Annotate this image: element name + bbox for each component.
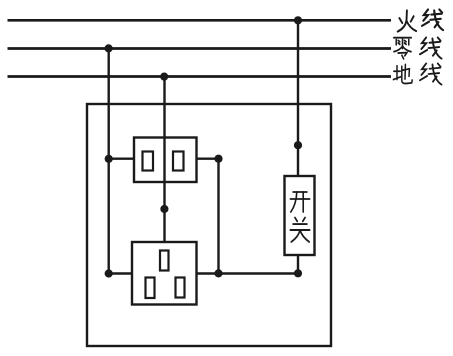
junction dot: switch bottom [294, 269, 302, 277]
wire: earth line (horizontal bottom) [8, 75, 392, 78]
socket XS2 bottom-right slot [176, 278, 185, 298]
socket XS1 left slot [143, 152, 154, 171]
switch S1 label 关 [290, 218, 309, 242]
switch S1 body [285, 176, 315, 255]
switch S1 label 开 [290, 192, 309, 212]
label 火线 (live wire) [398, 9, 443, 31]
junction dot: XS1 right lead [214, 155, 222, 163]
wire: live line (horizontal top) [8, 19, 392, 22]
junction dot: neutral riser at XS1 left [105, 155, 113, 163]
wire: earth drop (vertical center) [163, 77, 165, 243]
junction dot: earth drop mid [160, 205, 168, 213]
label 地线 (earth wire) [393, 63, 441, 84]
junction dot: neutral riser at XS2 left [105, 269, 113, 277]
junction dot: live drop mid [294, 141, 302, 149]
socket XS2 (three-hole) body [132, 242, 197, 305]
enclosure box [87, 104, 331, 346]
wire: three-hole socket left lead [109, 272, 132, 274]
socket XS1 (two-hole) body [134, 138, 197, 183]
label 零线 (neutral wire) [394, 37, 442, 58]
junction dot: earth line tap [160, 73, 168, 81]
socket XS2 bottom-left slot [146, 278, 155, 299]
junction dot: live line tap [294, 16, 302, 24]
socket XS2 top slot [160, 251, 169, 271]
wire: switch bottom lead [297, 255, 299, 274]
socket XS1 right slot [173, 152, 184, 171]
wire: three-hole socket right lead to switch bottom [197, 272, 299, 274]
wire: two-hole socket right lead [197, 157, 219, 159]
wire: neutral line (horizontal middle) [8, 47, 392, 50]
wire: two-hole socket left lead [109, 157, 134, 159]
wire: live drop to switch (vertical right) [297, 20, 299, 176]
junction dot: neutral line tap [105, 44, 113, 52]
wire: neutral drop (vertical left) [107, 49, 109, 274]
junction dot: XS2 right lead [214, 269, 222, 277]
wire: socket right riser [217, 159, 219, 274]
